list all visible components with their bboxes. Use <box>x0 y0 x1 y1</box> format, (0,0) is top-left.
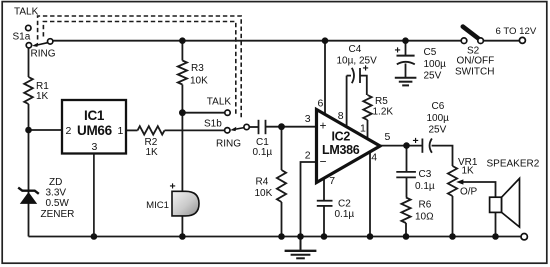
svg-text:0.1µ: 0.1µ <box>415 181 435 192</box>
svg-text:+: + <box>170 181 176 193</box>
svg-text:4: 4 <box>371 152 377 164</box>
svg-text:2: 2 <box>66 125 72 137</box>
svg-text:7: 7 <box>329 175 335 187</box>
svg-text:6: 6 <box>318 97 324 109</box>
svg-text:3.3V: 3.3V <box>46 188 67 199</box>
svg-text:+: + <box>363 63 369 75</box>
svg-text:10K: 10K <box>190 76 208 87</box>
svg-text:1K: 1K <box>36 91 49 102</box>
svg-text:S1a: S1a <box>13 31 31 42</box>
svg-text:R3: R3 <box>191 63 204 74</box>
svg-text:100µ: 100µ <box>427 113 450 124</box>
svg-text:R5: R5 <box>375 96 388 107</box>
svg-text:O/P: O/P <box>460 186 478 197</box>
svg-text:IC2: IC2 <box>332 130 351 144</box>
svg-text:25V: 25V <box>429 125 447 136</box>
svg-text:100µ: 100µ <box>424 59 447 70</box>
svg-text:2: 2 <box>305 149 311 161</box>
svg-text:MIC1: MIC1 <box>146 200 169 211</box>
svg-text:TALK: TALK <box>207 96 232 107</box>
svg-text:C2: C2 <box>338 198 351 209</box>
svg-text:10Ω: 10Ω <box>415 211 434 222</box>
svg-text:0.1µ: 0.1µ <box>335 209 355 220</box>
svg-text:1K: 1K <box>146 147 159 158</box>
svg-text:+: + <box>320 119 327 133</box>
svg-text:ZENER: ZENER <box>41 209 75 220</box>
svg-text:+: + <box>395 45 401 57</box>
svg-text:LM386: LM386 <box>322 143 360 157</box>
svg-text:SWITCH: SWITCH <box>455 66 494 77</box>
svg-text:10K: 10K <box>255 188 273 199</box>
svg-text:3: 3 <box>92 141 98 153</box>
svg-text:RING: RING <box>31 49 56 60</box>
svg-text:ON/OFF: ON/OFF <box>457 55 495 66</box>
svg-text:10µ, 25V: 10µ, 25V <box>337 56 378 67</box>
svg-text:25V: 25V <box>424 71 442 82</box>
svg-text:R4: R4 <box>256 176 269 187</box>
svg-text:5: 5 <box>385 131 391 143</box>
svg-text:0.5W: 0.5W <box>46 198 70 209</box>
svg-text:IC1: IC1 <box>84 108 105 123</box>
svg-text:6 TO 12V: 6 TO 12V <box>496 26 537 37</box>
svg-text:C5: C5 <box>424 47 437 58</box>
svg-text:S1b: S1b <box>204 118 222 129</box>
svg-text:RING: RING <box>216 138 241 149</box>
svg-text:UM66: UM66 <box>77 123 113 138</box>
svg-text:1: 1 <box>360 122 366 134</box>
svg-text:0.1µ: 0.1µ <box>253 147 273 158</box>
svg-text:1K: 1K <box>462 166 475 177</box>
svg-text:1: 1 <box>118 125 124 137</box>
svg-text:R6: R6 <box>419 199 432 210</box>
svg-text:C4: C4 <box>349 44 362 55</box>
svg-text:C3: C3 <box>419 169 432 180</box>
svg-text:C6: C6 <box>432 101 445 112</box>
svg-text:+: + <box>413 135 419 147</box>
svg-text:1.2K: 1.2K <box>373 106 394 117</box>
svg-text:SPEAKER2: SPEAKER2 <box>487 158 540 169</box>
svg-text:TALK: TALK <box>14 7 39 18</box>
svg-text:3: 3 <box>305 113 311 125</box>
svg-text:8: 8 <box>338 110 344 122</box>
